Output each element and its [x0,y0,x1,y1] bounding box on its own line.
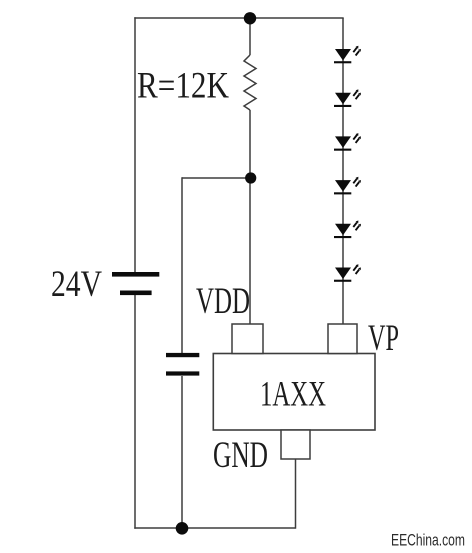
svg-text:GND: GND [213,435,268,476]
svg-text:EEChina.com: EEChina.com [391,531,465,550]
svg-text:1AXX: 1AXX [260,374,326,414]
svg-text:VDD: VDD [196,281,250,322]
svg-text:24V: 24V [51,264,102,305]
svg-text:R=12K: R=12K [137,66,229,107]
svg-text:VP: VP [368,318,399,359]
